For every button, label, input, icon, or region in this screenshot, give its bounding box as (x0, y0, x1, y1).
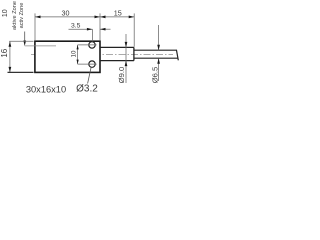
dim 3.5 (69, 29, 111, 41)
mounting hole bottom (89, 61, 95, 67)
svg-text:15: 15 (114, 8, 122, 17)
sensor body outline (35, 41, 100, 72)
svg-text:10: 10 (71, 50, 78, 57)
dim dia 6.5 (158, 25, 160, 50)
dim 16 (9, 41, 33, 72)
svg-text:30x16x10: 30x16x10 (26, 85, 66, 95)
label dia 3.2 leader (88, 68, 91, 84)
svg-text:Ø9.0: Ø9.0 (117, 67, 126, 83)
svg-text:3.5: 3.5 (71, 23, 81, 30)
active zone line (25, 45, 56, 47)
centerline (31, 53, 173, 55)
mounting hole top (89, 42, 95, 48)
active zone leader arrow (23, 32, 26, 47)
cable (135, 50, 179, 61)
svg-text:10: 10 (2, 9, 9, 17)
crosshair top hole (78, 44, 97, 46)
dim dia 9.0 (125, 34, 127, 83)
svg-text:Ø6.5: Ø6.5 (150, 67, 159, 83)
dim 15 (100, 13, 134, 46)
svg-text:activ Zone: activ Zone (19, 3, 25, 29)
svg-text:aktive Zone: aktive Zone (12, 1, 18, 30)
dim 30 (35, 13, 100, 40)
svg-text:16: 16 (0, 48, 9, 57)
svg-text:30: 30 (62, 8, 70, 17)
svg-text:Ø3.2: Ø3.2 (76, 84, 98, 95)
dim 10 hole spacing (77, 45, 79, 64)
barrel (100, 47, 134, 60)
crosshair bottom hole (78, 63, 97, 65)
